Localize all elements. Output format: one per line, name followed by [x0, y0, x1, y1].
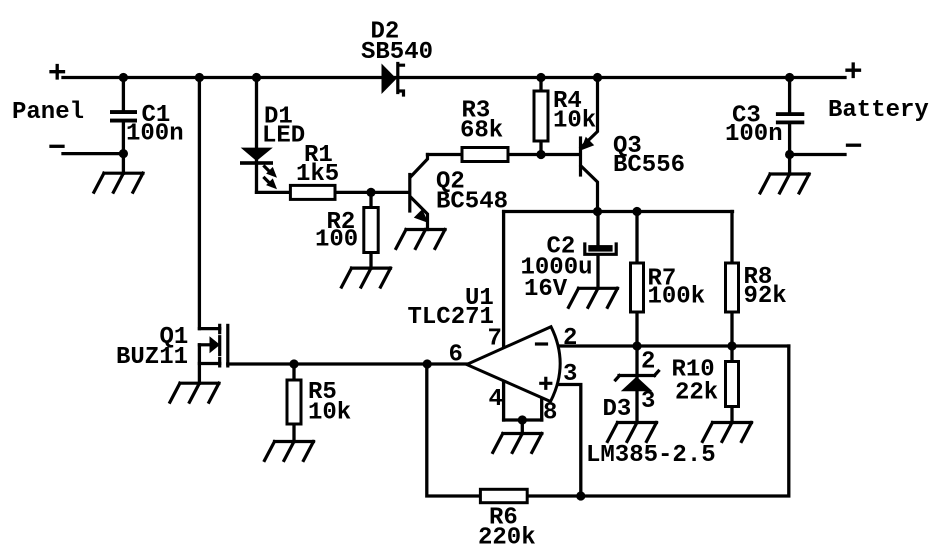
resistor R5 with leads: [292, 364, 295, 442]
junction D3 top on pin2 net: [632, 341, 641, 350]
op-amp U1 triangle: [467, 327, 560, 402]
svg-text:92k: 92k: [744, 283, 787, 310]
wire non-inverting input pin 3: [556, 385, 581, 497]
resistor R3: [462, 148, 508, 162]
svg-text:100n: 100n: [126, 121, 184, 148]
capacitor C3: [776, 78, 804, 175]
LED D1: [240, 148, 277, 190]
wire op-amp pin 8: [540, 398, 543, 420]
junction R7 top on mid net: [632, 207, 641, 216]
svg-text:BC556: BC556: [613, 152, 685, 179]
svg-text:Battery: Battery: [828, 97, 929, 124]
junction R5 tap: [289, 359, 298, 368]
junction C1 top rail: [119, 73, 128, 82]
capacitor C1: [110, 78, 137, 174]
node Panel + terminal: [51, 66, 64, 79]
transistor Q2: [410, 155, 429, 230]
wire R2 branch: [369, 192, 372, 268]
wire op-amp pin 4: [502, 380, 505, 420]
diode D2 SB540: [382, 64, 404, 96]
junction R8 bottom R10 top: [727, 341, 736, 350]
svg-text:10k: 10k: [553, 108, 596, 135]
resistor R8 with leads: [730, 212, 733, 347]
junction rail to R4: [536, 73, 545, 82]
svg-text:220k: 220k: [478, 525, 536, 552]
resistor R10 with leads: [730, 346, 733, 423]
junction ground tap pins 4 8: [518, 415, 527, 424]
svg-text:22k: 22k: [675, 380, 718, 407]
junction rail to D1: [252, 73, 261, 82]
svg-text:4: 4: [489, 386, 503, 413]
wire supply mid net: [504, 210, 733, 213]
ground under op-amp pins 4 8: [493, 434, 542, 453]
wire inverting input net pin2: [556, 344, 789, 347]
wire op-amp pin 7 supply: [502, 212, 505, 349]
junction R4 bottom: [536, 150, 545, 159]
ground under Q1: [170, 383, 219, 402]
capacitor C2 electrolytic: [585, 212, 616, 289]
junction Q3 collector on mid net: [593, 207, 602, 216]
node Battery - terminal: [848, 144, 860, 147]
junction rail to Q3 emitter: [593, 73, 602, 82]
resistor R7 with leads: [635, 212, 638, 347]
svg-text:BUZ11: BUZ11: [116, 344, 188, 371]
svg-text:8: 8: [543, 400, 557, 427]
wire ground stub pins 4 8: [521, 420, 524, 434]
wire Q1 drain from rail: [198, 78, 201, 329]
resistor R1: [290, 185, 335, 199]
svg-text:Panel: Panel: [12, 99, 84, 126]
op-amp U1 minus input mark: [537, 342, 547, 345]
svg-text:2: 2: [563, 325, 577, 352]
ground under D3: [608, 423, 657, 442]
op-amp U1 plus input mark: [541, 378, 551, 388]
resistor R4 with leads: [539, 78, 542, 155]
junction R2 tap on base net: [366, 188, 375, 197]
wire top positive rail: [63, 76, 845, 79]
svg-text:16V: 16V: [524, 276, 568, 303]
wire panel minus: [63, 152, 123, 155]
transistor Q1 MOSFET: [199, 325, 227, 383]
svg-text:6: 6: [449, 342, 463, 369]
resistor R6: [480, 489, 527, 502]
junction C3 minus wire: [785, 150, 794, 159]
resistor R2: [364, 208, 378, 253]
wire R3 to Q3 base net: [428, 153, 579, 156]
diode D3 reference LM385: [616, 346, 659, 423]
node Battery + terminal: [847, 64, 860, 77]
junction output to feedback loop: [423, 359, 432, 368]
ground under C1: [94, 173, 143, 192]
svg-text:1k5: 1k5: [296, 161, 339, 188]
svg-text:68k: 68k: [460, 118, 503, 145]
junction C1 minus wire: [119, 149, 128, 158]
junction rail to C3: [785, 73, 794, 82]
ground under R5: [265, 442, 314, 461]
svg-text:SB540: SB540: [361, 39, 433, 66]
ground under R2: [342, 268, 391, 287]
svg-text:TLC271: TLC271: [408, 304, 494, 331]
junction pin3 tap on bottom wire: [576, 491, 585, 500]
svg-text:LED: LED: [262, 123, 305, 150]
svg-text:3: 3: [563, 361, 577, 388]
wire gate and op-amp output net: [228, 362, 467, 365]
wire Q2 base net: [257, 191, 409, 194]
svg-text:D3: D3: [603, 396, 632, 423]
wire pin4 to pin8 connector: [504, 418, 542, 421]
ground under C3: [760, 174, 809, 193]
svg-text:3: 3: [641, 388, 655, 415]
svg-text:100: 100: [315, 227, 358, 254]
wire feedback loop right and bottom: [427, 346, 789, 496]
ground under R10: [703, 423, 752, 442]
svg-text:100n: 100n: [725, 121, 783, 148]
ground under Q2: [396, 230, 445, 249]
svg-text:BC548: BC548: [436, 189, 508, 216]
wire LED branch vertical: [255, 78, 258, 193]
node Panel - terminal: [51, 145, 63, 148]
transistor Q3: [581, 78, 598, 212]
svg-text:2: 2: [641, 349, 655, 376]
ground under C2: [569, 288, 618, 307]
svg-text:100k: 100k: [648, 284, 706, 311]
svg-text:7: 7: [488, 326, 502, 353]
junction rail to Q1 drain: [195, 73, 204, 82]
wire battery minus: [790, 153, 845, 156]
svg-text:10k: 10k: [308, 400, 351, 427]
svg-text:LM385-2.5: LM385-2.5: [586, 442, 716, 469]
